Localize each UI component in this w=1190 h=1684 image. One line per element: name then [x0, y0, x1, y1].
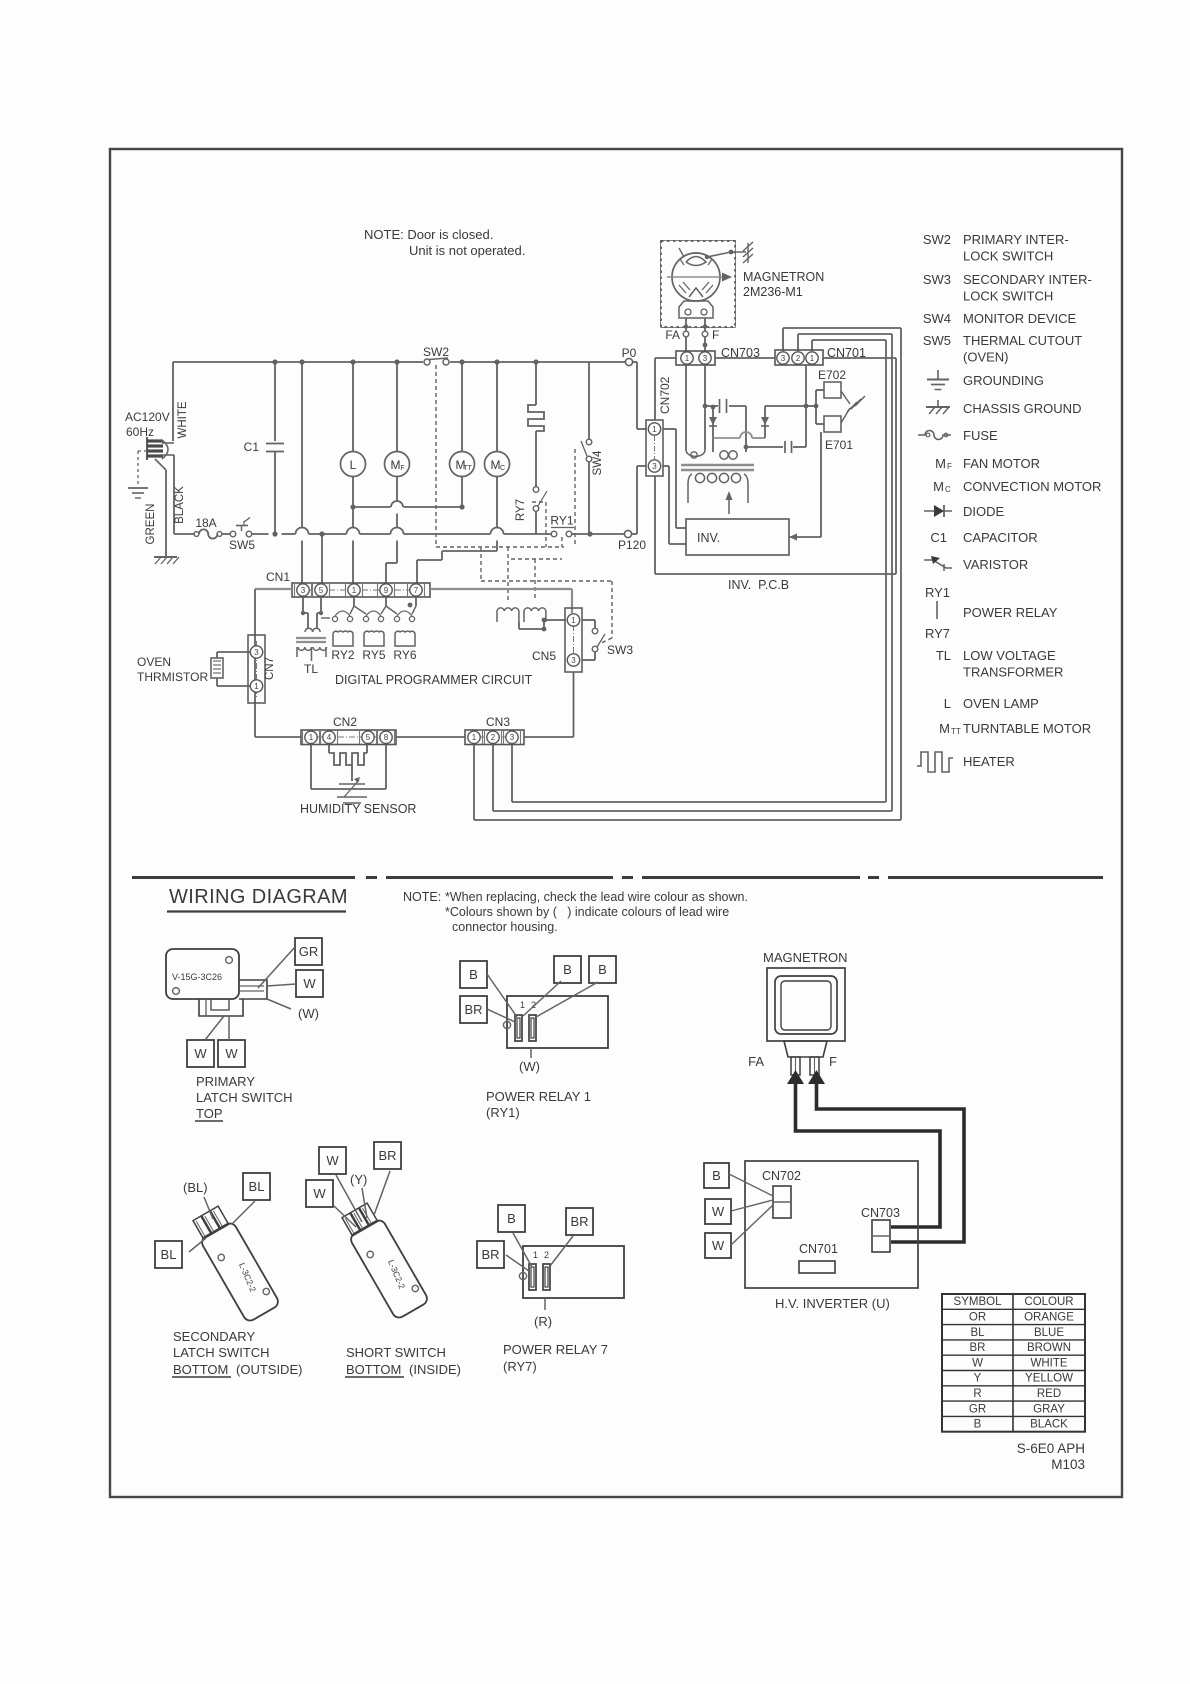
svg-text:(INSIDE): (INSIDE)	[409, 1362, 461, 1377]
svg-text:RY1: RY1	[550, 514, 573, 528]
svg-text:POWER RELAY 7: POWER RELAY 7	[503, 1342, 608, 1357]
svg-text:BR: BR	[464, 1002, 482, 1017]
svg-text:BOTTOM: BOTTOM	[173, 1362, 228, 1377]
svg-text:W: W	[712, 1204, 725, 1219]
svg-text:S-6E0 APH: S-6E0 APH	[1017, 1441, 1085, 1456]
svg-text:DIODE: DIODE	[963, 504, 1005, 519]
svg-text:FUSE: FUSE	[963, 428, 998, 443]
svg-text:(W): (W)	[519, 1059, 540, 1074]
svg-text:1: 1	[352, 586, 357, 595]
svg-text:1: 1	[810, 354, 815, 363]
svg-text:B: B	[712, 1168, 721, 1183]
svg-text:M: M	[391, 458, 401, 472]
svg-text:COLOUR: COLOUR	[1024, 1296, 1073, 1308]
svg-text:(RY1): (RY1)	[486, 1105, 520, 1120]
svg-text:1: 1	[254, 682, 259, 691]
svg-text:DIGITAL PROGRAMMER CIRCUIT: DIGITAL PROGRAMMER CIRCUIT	[335, 673, 533, 687]
svg-text:(R): (R)	[534, 1314, 552, 1329]
svg-text:2: 2	[491, 733, 496, 742]
svg-text:L: L	[944, 696, 951, 711]
svg-text:CN7: CN7	[264, 657, 276, 680]
svg-text:H.V. INVERTER (U): H.V. INVERTER (U)	[775, 1296, 890, 1311]
svg-text:GREEN: GREEN	[145, 504, 157, 545]
svg-text:GR: GR	[969, 1403, 986, 1415]
svg-text:WHITE: WHITE	[177, 401, 189, 438]
svg-text:THRMISTOR: THRMISTOR	[137, 670, 208, 684]
svg-text:B: B	[974, 1419, 982, 1431]
svg-text:F: F	[712, 328, 719, 342]
svg-text:SW2: SW2	[423, 345, 449, 359]
svg-text:7: 7	[414, 586, 419, 595]
svg-text:RY6: RY6	[393, 648, 416, 662]
svg-text:3: 3	[510, 733, 515, 742]
svg-text:LOW VOLTAGE: LOW VOLTAGE	[963, 648, 1056, 663]
svg-text:(W): (W)	[298, 1006, 319, 1021]
svg-text:SHORT SWITCH: SHORT SWITCH	[346, 1345, 446, 1360]
svg-text:BL: BL	[161, 1247, 177, 1262]
svg-text:SW4: SW4	[923, 311, 951, 326]
svg-text:M103: M103	[1051, 1457, 1085, 1472]
svg-text:INV.: INV.	[697, 531, 720, 545]
svg-text:SYMBOL: SYMBOL	[954, 1296, 1003, 1308]
svg-text:HEATER: HEATER	[963, 754, 1015, 769]
svg-text:OVEN: OVEN	[137, 655, 171, 669]
svg-text:TURNTABLE MOTOR: TURNTABLE MOTOR	[963, 721, 1091, 736]
svg-text:3: 3	[301, 586, 306, 595]
svg-text:*When replacing, check the lea: *When replacing, check the lead wire col…	[445, 890, 748, 904]
svg-text:B: B	[469, 967, 478, 982]
svg-text:F: F	[947, 462, 952, 471]
svg-text:1: 1	[520, 1000, 525, 1010]
svg-text:PRIMARY: PRIMARY	[196, 1074, 255, 1089]
svg-text:BROWN: BROWN	[1027, 1342, 1071, 1354]
svg-text:BR: BR	[570, 1214, 588, 1229]
svg-text:SW5: SW5	[923, 333, 951, 348]
svg-text:18A: 18A	[195, 516, 216, 530]
svg-text:POWER RELAY: POWER RELAY	[963, 605, 1058, 620]
svg-text:M: M	[935, 456, 946, 471]
svg-text:1: 1	[472, 733, 477, 742]
svg-text:SECONDARY: SECONDARY	[173, 1329, 255, 1344]
svg-text:OR: OR	[969, 1312, 986, 1324]
svg-text:NOTE:: NOTE:	[403, 890, 441, 904]
svg-text:L: L	[350, 458, 357, 472]
svg-text:3: 3	[703, 354, 708, 363]
svg-text:PRIMARY INTER-: PRIMARY INTER-	[963, 232, 1069, 247]
svg-text:TL: TL	[936, 648, 951, 663]
svg-text:VARISTOR: VARISTOR	[963, 557, 1028, 572]
svg-text:RY5: RY5	[362, 648, 385, 662]
svg-text:GR: GR	[299, 944, 319, 959]
svg-text:HUMIDITY SENSOR: HUMIDITY SENSOR	[300, 802, 416, 816]
svg-text:MAGNETRON: MAGNETRON	[743, 270, 824, 284]
svg-text:CN5: CN5	[532, 649, 556, 663]
svg-text:INV. P.C.B: INV. P.C.B	[728, 578, 789, 592]
svg-text:CN703: CN703	[861, 1206, 900, 1220]
svg-text:Unit is not operated.: Unit is not operated.	[409, 243, 525, 258]
svg-text:W: W	[225, 1046, 238, 1061]
svg-text:BR: BR	[378, 1148, 396, 1163]
svg-text:C1: C1	[244, 440, 260, 454]
svg-text:F: F	[400, 465, 404, 472]
svg-text:B: B	[598, 962, 607, 977]
svg-text:P120: P120	[618, 538, 646, 552]
svg-text:CONVECTION MOTOR: CONVECTION MOTOR	[963, 479, 1101, 494]
svg-text:SW3: SW3	[607, 643, 633, 657]
svg-text:C: C	[500, 465, 505, 472]
svg-text:CN702: CN702	[658, 376, 672, 414]
svg-text:BL: BL	[249, 1179, 265, 1194]
svg-text:CN701: CN701	[799, 1242, 838, 1256]
svg-text:FAN MOTOR: FAN MOTOR	[963, 456, 1040, 471]
svg-text:BL: BL	[970, 1327, 985, 1339]
svg-text:AC120V: AC120V	[125, 410, 170, 424]
svg-text:Y: Y	[974, 1373, 982, 1385]
svg-text:E702: E702	[818, 368, 846, 382]
svg-text:W: W	[303, 976, 316, 991]
svg-text:BLACK: BLACK	[174, 486, 186, 524]
svg-text:5: 5	[366, 733, 371, 742]
svg-text:SW2: SW2	[923, 232, 951, 247]
svg-text:CAPACITOR: CAPACITOR	[963, 530, 1038, 545]
svg-text:3: 3	[781, 354, 786, 363]
svg-text:ORANGE: ORANGE	[1024, 1312, 1074, 1324]
svg-text:M: M	[933, 479, 944, 494]
svg-text:WIRING DIAGRAM: WIRING DIAGRAM	[169, 886, 348, 908]
svg-text:(Y): (Y)	[350, 1172, 367, 1187]
svg-text:V-15G-3C26: V-15G-3C26	[172, 972, 222, 982]
svg-text:BLACK: BLACK	[1030, 1419, 1068, 1431]
svg-text:1: 1	[533, 1250, 538, 1260]
svg-text:W: W	[326, 1153, 339, 1168]
svg-text:(BL): (BL)	[183, 1180, 208, 1195]
svg-text:2: 2	[796, 354, 801, 363]
svg-text:TT: TT	[463, 465, 472, 472]
svg-text:FA: FA	[665, 328, 680, 342]
svg-text:W: W	[712, 1238, 725, 1253]
svg-text:1: 1	[571, 616, 576, 625]
svg-text:3: 3	[652, 462, 657, 471]
svg-text:RED: RED	[1037, 1388, 1061, 1400]
svg-text:1: 1	[309, 733, 314, 742]
svg-text:60Hz: 60Hz	[126, 425, 154, 439]
svg-text:CN702: CN702	[762, 1169, 801, 1183]
svg-text:B: B	[507, 1211, 516, 1226]
svg-text:2: 2	[544, 1250, 549, 1260]
svg-text:(RY7): (RY7)	[503, 1359, 537, 1374]
svg-text:M: M	[939, 721, 950, 736]
svg-text:FA: FA	[748, 1054, 764, 1069]
svg-text:MONITOR DEVICE: MONITOR DEVICE	[963, 311, 1076, 326]
svg-text:W: W	[313, 1186, 326, 1201]
svg-text:SW3: SW3	[923, 272, 951, 287]
svg-text:WHITE: WHITE	[1030, 1357, 1067, 1369]
svg-text:TRANSFORMER: TRANSFORMER	[963, 665, 1063, 680]
svg-text:F: F	[829, 1054, 837, 1069]
svg-text:connector housing.: connector housing.	[452, 920, 558, 934]
svg-text:TL: TL	[304, 662, 318, 676]
svg-text:LATCH SWITCH: LATCH SWITCH	[196, 1090, 293, 1105]
svg-text:MAGNETRON: MAGNETRON	[763, 950, 848, 965]
svg-text:LOCK SWITCH: LOCK SWITCH	[963, 289, 1053, 304]
svg-text:BLUE: BLUE	[1034, 1327, 1064, 1339]
svg-text:C1: C1	[930, 530, 947, 545]
svg-text:*Colours shown by ( ) indica: *Colours shown by ( ) indicate colours o…	[445, 905, 729, 919]
svg-text:LOCK SWITCH: LOCK SWITCH	[963, 249, 1053, 264]
svg-text:YELLOW: YELLOW	[1025, 1373, 1073, 1385]
svg-text:5: 5	[319, 586, 324, 595]
svg-text:TT: TT	[951, 727, 961, 736]
svg-text:2M236-M1: 2M236-M1	[743, 285, 803, 299]
svg-text:C: C	[945, 485, 951, 494]
svg-text:RY1: RY1	[925, 585, 950, 600]
svg-text:LATCH SWITCH: LATCH SWITCH	[173, 1345, 270, 1360]
svg-text:THERMAL CUTOUT: THERMAL CUTOUT	[963, 333, 1082, 348]
svg-text:RY2: RY2	[331, 648, 354, 662]
svg-text:GRAY: GRAY	[1033, 1403, 1065, 1415]
svg-text:RY7: RY7	[515, 499, 527, 521]
svg-text:E701: E701	[825, 438, 853, 452]
svg-text:4: 4	[327, 733, 332, 742]
svg-text:R: R	[973, 1388, 981, 1400]
svg-text:P0: P0	[622, 346, 637, 360]
svg-text:B: B	[563, 962, 572, 977]
svg-text:BOTTOM: BOTTOM	[346, 1362, 401, 1377]
svg-text:GROUNDING: GROUNDING	[963, 373, 1044, 388]
svg-text:3: 3	[254, 648, 259, 657]
svg-text:1: 1	[652, 425, 657, 434]
svg-text:3: 3	[571, 656, 576, 665]
svg-text:SW5: SW5	[229, 538, 255, 552]
svg-text:CHASSIS GROUND: CHASSIS GROUND	[963, 401, 1081, 416]
svg-text:BR: BR	[481, 1247, 499, 1262]
svg-text:8: 8	[384, 733, 389, 742]
svg-text:CN2: CN2	[333, 715, 357, 729]
svg-text:CN1: CN1	[266, 570, 290, 584]
svg-text:TOP: TOP	[196, 1106, 223, 1121]
svg-text:9: 9	[384, 586, 389, 595]
svg-text:RY7: RY7	[925, 626, 950, 641]
svg-text:CN3: CN3	[486, 715, 510, 729]
svg-text:(OVEN): (OVEN)	[963, 350, 1009, 365]
svg-text:W: W	[972, 1357, 983, 1369]
svg-text:SW4: SW4	[592, 450, 604, 476]
svg-text:BR: BR	[970, 1342, 986, 1354]
svg-text:1: 1	[685, 354, 690, 363]
svg-text:SECONDARY INTER-: SECONDARY INTER-	[963, 272, 1092, 287]
svg-text:W: W	[194, 1046, 207, 1061]
svg-text:(OUTSIDE): (OUTSIDE)	[236, 1362, 302, 1377]
svg-text:POWER RELAY 1: POWER RELAY 1	[486, 1089, 591, 1104]
svg-text:NOTE: Door is closed.: NOTE: Door is closed.	[364, 227, 493, 242]
svg-text:OVEN LAMP: OVEN LAMP	[963, 696, 1039, 711]
